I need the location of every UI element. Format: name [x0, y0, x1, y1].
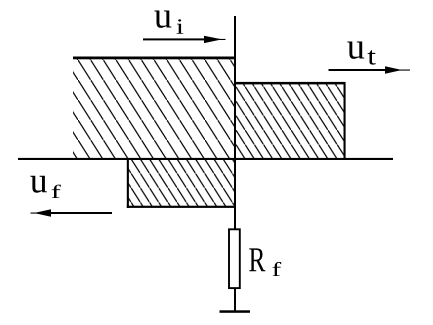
arrow u_t — [329, 66, 411, 73]
output block u_t hatched area — [236, 84, 345, 160]
f subscript of u_f — [52, 185, 61, 198]
f subscript of R_f — [272, 262, 281, 276]
vertical center wire — [234, 16, 236, 312]
ground — [220, 310, 251, 313]
t subscript of u_t — [368, 50, 376, 64]
feedback block u_f left edge — [127, 158, 129, 208]
output block u_t top edge — [236, 82, 346, 85]
output block u_t right edge — [344, 82, 346, 159]
R of label R_f — [249, 248, 265, 271]
arrow u_i — [143, 36, 226, 43]
horizontal axis — [18, 158, 393, 160]
input block u_i thick top edge — [73, 57, 236, 60]
u of label u_t — [347, 42, 364, 59]
input block u_i hatched area — [73, 58, 235, 159]
feedback block u_f hatched area — [128, 159, 235, 207]
i subscript of u_i — [177, 19, 184, 34]
arrow u_f — [31, 209, 113, 216]
u of label u_f — [30, 176, 47, 193]
u of label u_i — [154, 11, 171, 28]
resistor Rf body — [229, 229, 240, 288]
feedback block u_f bottom edge — [127, 206, 236, 208]
